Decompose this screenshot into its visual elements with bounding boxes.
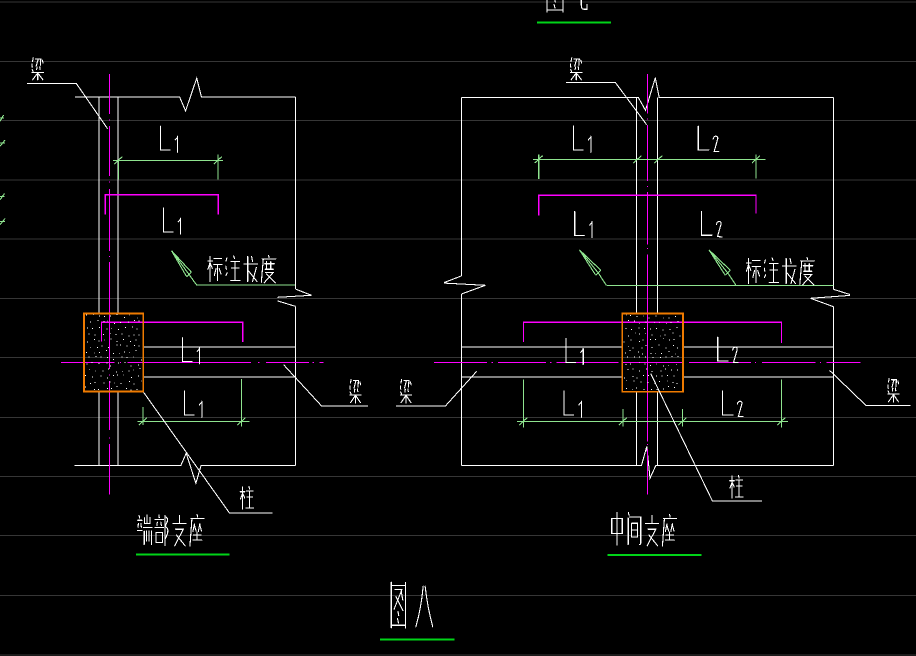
left column label leader: [144, 392, 273, 513]
left figure right edge lower part: [295, 306, 297, 465]
right beam bottom edge: [462, 376, 834, 378]
right bracket label L2 second row: [702, 212, 723, 237]
right lower dimension line green: [517, 380, 788, 428]
right figure right edge lower part: [833, 307, 835, 466]
right support hatch dots: [624, 315, 681, 389]
right beam label leader far-right: [830, 370, 911, 405]
left upper dimension line green: [113, 154, 223, 179]
title figure7 green underline: [537, 21, 611, 23]
left column right edge: [117, 97, 119, 465]
left figure right edge break symbol: [278, 289, 312, 306]
right column label leader: [651, 374, 762, 501]
left title char zhi: [173, 515, 187, 545]
right beam label leader top: [566, 83, 647, 125]
right beam label liang top: [570, 58, 582, 80]
right title char zhong: [612, 513, 623, 545]
right annotation text chang: [782, 258, 795, 283]
left support hatch dots: [85, 315, 142, 390]
left figure bottom edge with break symbol: [75, 453, 296, 483]
left title char bu: [155, 515, 168, 545]
left annotation arrow green: [172, 251, 197, 285]
left column magenta centerline: [108, 74, 110, 495]
left bracket label L1 second row: [163, 208, 180, 234]
right figure left edge break symbol: [444, 276, 485, 294]
right upper dimension label L2: [698, 126, 719, 151]
right lower dimension label L2: [723, 391, 744, 416]
right figure left edge lower part: [461, 294, 463, 466]
right title char jian: [628, 513, 641, 545]
cutoff dimension mark 4: [0, 219, 5, 225]
right title char zuo: [662, 515, 676, 546]
bottom title char ba: [416, 586, 433, 627]
right column left edge: [636, 97, 638, 465]
right bracket label L1 second row: [575, 212, 592, 238]
left title char zuo: [190, 515, 204, 546]
bottom title green underline: [380, 638, 454, 640]
bottom title char tu: [391, 582, 405, 628]
left lower rebar bracket magenta: [102, 322, 243, 342]
left lower dimension label L1: [185, 391, 202, 417]
left annotation text zhu4: [226, 256, 240, 280]
middle-right beam label liang: [400, 379, 411, 403]
left title green underline: [136, 554, 230, 556]
left figure right edge upper part: [295, 97, 297, 289]
right beam top edge: [462, 346, 834, 348]
right annotation leader green: [606, 285, 833, 287]
right annotation arrow green left: [580, 250, 607, 285]
left annotation text chang: [244, 256, 257, 281]
left beam magenta centerline: [61, 361, 324, 363]
left beam label leader: [27, 83, 107, 128]
right upper rebar bracket magenta: [539, 195, 756, 215]
left lower dimension line green: [138, 379, 250, 426]
title figure7 char tu (cut off at top): [547, 0, 563, 12]
left annotation text biao: [208, 257, 222, 282]
right annotation text zhu4: [764, 258, 778, 282]
right beam label liang far-right: [888, 378, 899, 402]
cutoff dimension mark 2: [0, 140, 5, 146]
right column label zhu: [730, 475, 743, 498]
right upper dimension label L1: [574, 126, 591, 152]
left annotation leader green: [197, 284, 295, 286]
middle-left beam label leader: [284, 365, 369, 406]
left annotation text du: [261, 256, 275, 283]
right column right edge: [656, 97, 658, 465]
right title char zhi: [645, 515, 659, 545]
left beam-level label L1: [182, 338, 199, 364]
right annotation arrow green right: [709, 250, 736, 285]
right lower rebar bracket magenta: [524, 322, 782, 343]
right beam magenta centerline: [434, 361, 861, 363]
left upper dimension label L1: [160, 126, 177, 152]
right annotation text du: [800, 258, 814, 285]
left column left edge: [98, 97, 100, 465]
middle-left beam label liang: [350, 379, 361, 403]
left beam top edge: [143, 346, 295, 348]
left upper rebar bracket magenta: [105, 195, 218, 215]
left title char duan: [137, 515, 152, 544]
right lower dimension label L1: [564, 391, 581, 417]
right support hatch box orange: [622, 314, 683, 392]
right column magenta centerline: [646, 74, 648, 494]
cutoff dimension mark 1: [0, 115, 4, 121]
right annotation text biao: [746, 259, 760, 284]
right figure left edge upper part: [461, 97, 463, 276]
middle-right beam label leader: [396, 371, 477, 406]
right beam-level label L1: [566, 339, 583, 365]
left beam bottom edge: [143, 376, 295, 378]
right figure right edge upper part: [832, 97, 834, 289]
left beam label liang top-left: [32, 58, 44, 80]
right upper dimension line green: [533, 154, 765, 179]
right title green underline: [608, 554, 702, 556]
right figure top edge with break symbol: [462, 78, 834, 111]
right figure bottom edge with column break symbol: [462, 446, 834, 478]
cutoff dimension mark 3: [0, 194, 5, 200]
right beam-level label L2: [718, 337, 739, 362]
left figure top edge with break symbol: [75, 78, 296, 111]
left column label zhu: [240, 486, 253, 509]
left support hatch box orange: [84, 314, 143, 392]
title figure7 char qi (cut off at top): [575, 0, 587, 9]
right figure right edge break symbol: [811, 289, 851, 306]
